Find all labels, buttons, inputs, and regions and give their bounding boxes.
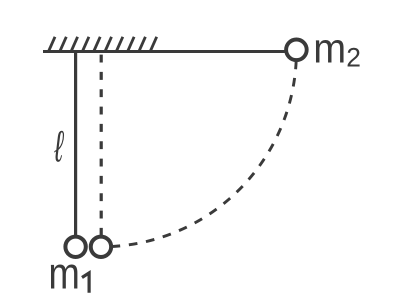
pendulum rod (solid string) bbox=[74, 52, 77, 238]
svg-text:ℓ: ℓ bbox=[54, 122, 65, 172]
dashed arc (swing path) bbox=[101, 50, 296, 247]
ball m2 bbox=[286, 40, 307, 61]
ceiling line bbox=[43, 50, 290, 53]
ball m1 bbox=[65, 237, 85, 257]
ghost ball (m1 initial position) bbox=[91, 237, 111, 257]
svg-text:m: m bbox=[313, 24, 346, 71]
ceiling hatching bbox=[49, 37, 157, 51]
dashed vertical string (initial position) bbox=[100, 55, 103, 236]
svg-text:m: m bbox=[48, 248, 79, 298]
svg-text:2: 2 bbox=[346, 43, 361, 73]
